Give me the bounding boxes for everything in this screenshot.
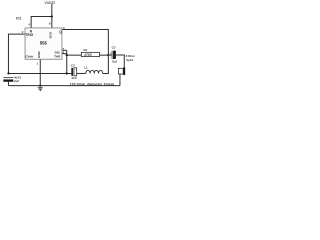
svg-text:470R: 470R	[84, 53, 92, 57]
wire C2 right lead	[77, 72, 86, 74]
wire R1 right lead	[100, 54, 109, 56]
svg-text:VDD: VDD	[44, 1, 52, 5]
svg-text:GND: GND	[37, 50, 41, 58]
wire speaker bottom stub	[119, 74, 121, 86]
wire C3 left lead	[108, 54, 111, 56]
power VDD	[44, 1, 54, 5]
svg-text:1: 1	[36, 61, 38, 65]
node rail junction	[66, 72, 68, 74]
capacitor C2	[71, 64, 77, 80]
speaker Spk1	[118, 54, 135, 75]
capacitor C3	[109, 45, 117, 63]
wire R1 left lead	[67, 54, 82, 56]
node output junction	[107, 54, 109, 56]
svg-text:170 Ohm, diameter 10mm: 170 Ohm, diameter 10mm	[69, 82, 114, 86]
capacitor C1	[3, 75, 21, 83]
wire reset pin 4 to VDD	[31, 16, 52, 28]
svg-text:+: +	[109, 51, 111, 55]
wire DIS-THR vertical	[66, 50, 68, 73]
svg-text:2: 2	[22, 30, 24, 34]
svg-text:Spk1: Spk1	[126, 58, 133, 62]
svg-text:VDD: VDD	[49, 31, 53, 38]
node VDD junction	[51, 15, 53, 17]
svg-text:IC1: IC1	[16, 17, 21, 21]
svg-text:C2: C2	[71, 64, 75, 68]
wire C1 bottom stub	[7, 81, 9, 85]
svg-text:THR: THR	[54, 54, 61, 58]
resistor R1	[81, 48, 99, 57]
svg-text:L1: L1	[84, 66, 88, 70]
wire C3 to speaker	[116, 55, 124, 67]
svg-text:555: 555	[40, 41, 48, 46]
wire Q output pin 3	[62, 29, 108, 55]
svg-text:8: 8	[49, 21, 51, 25]
ground	[38, 88, 43, 91]
svg-text:3u3: 3u3	[71, 76, 76, 80]
wire VDD pin 8	[51, 4, 53, 28]
wire GND pin 1	[39, 59, 41, 85]
svg-text:R1: R1	[83, 48, 87, 52]
wire THR pin 6 stub	[62, 53, 67, 55]
svg-text:4: 4	[28, 22, 30, 26]
node ground junction	[39, 85, 41, 87]
wire rail TRIG/THR node	[8, 72, 71, 74]
svg-text:3u3: 3u3	[112, 60, 117, 64]
svg-text:2u2: 2u2	[14, 79, 19, 83]
wire TRIG pin 2	[8, 34, 25, 73]
svg-text:TRIG: TRIG	[25, 33, 33, 37]
node DIS/THR/R1 junction	[66, 54, 68, 56]
wire DIS pin 7 stub	[62, 49, 67, 51]
wire output to L1	[103, 55, 109, 73]
svg-text:C3: C3	[112, 45, 116, 49]
IC IC1 555 timer	[16, 17, 62, 60]
node TRIG/C1 junction	[7, 72, 9, 74]
wire ground rail	[8, 85, 120, 87]
inductor L1	[84, 66, 103, 74]
svg-text:CVolt: CVolt	[25, 54, 33, 58]
